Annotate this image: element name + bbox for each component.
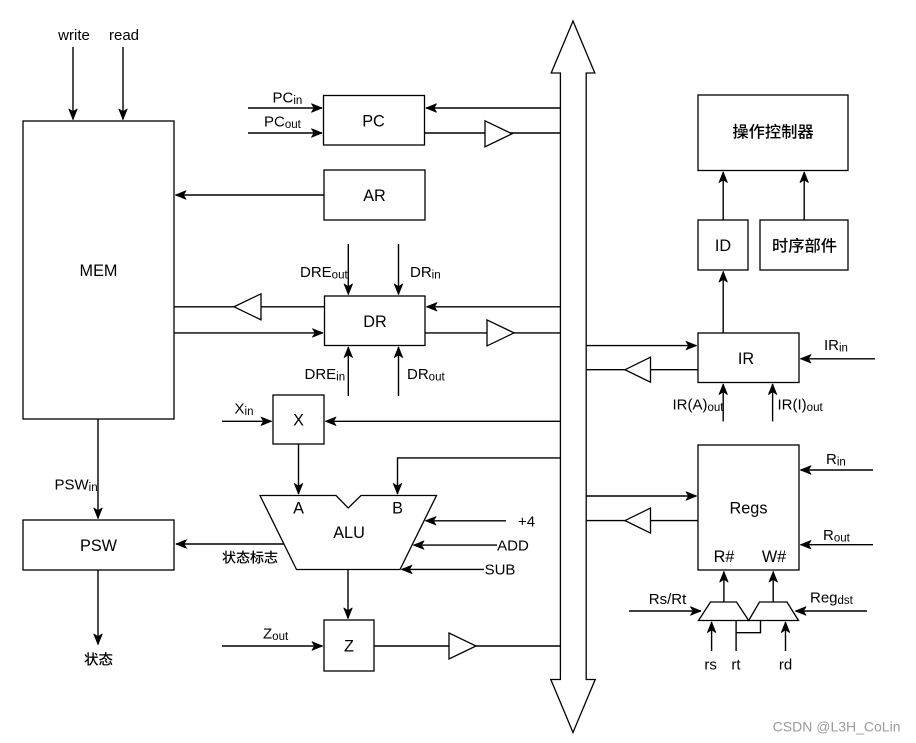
svg-text:rt: rt: [731, 657, 741, 674]
svg-text:ADD: ADD: [497, 538, 529, 555]
svg-text:DR: DR: [363, 313, 386, 331]
svg-text:PSW: PSW: [80, 537, 118, 555]
svg-text:AR: AR: [363, 187, 386, 205]
svg-text:write: write: [57, 27, 90, 44]
svg-text:R#: R#: [714, 548, 735, 566]
svg-text:rs: rs: [704, 657, 717, 674]
svg-text:A: A: [293, 500, 304, 518]
svg-text:MEM: MEM: [80, 262, 118, 280]
svg-text:Rs/Rt: Rs/Rt: [649, 591, 687, 608]
svg-text:B: B: [392, 500, 403, 518]
svg-text:rd: rd: [779, 657, 792, 674]
svg-text:Z: Z: [344, 638, 354, 656]
svg-text:SUB: SUB: [485, 562, 516, 579]
svg-text:PC: PC: [362, 112, 385, 130]
svg-text:Regs: Regs: [730, 500, 768, 518]
svg-text:IR: IR: [738, 350, 754, 368]
svg-text:ALU: ALU: [333, 524, 365, 542]
svg-text:CSDN @L3H_CoLin: CSDN @L3H_CoLin: [773, 719, 901, 735]
svg-text:W#: W#: [762, 548, 786, 566]
svg-text:X: X: [293, 412, 304, 430]
svg-text:+4: +4: [518, 514, 535, 531]
svg-text:read: read: [109, 27, 139, 44]
svg-text:ID: ID: [715, 237, 731, 255]
